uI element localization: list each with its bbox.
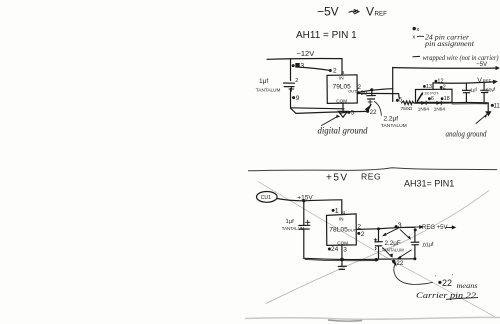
- svg-text:1N94: 1N94: [418, 106, 430, 111]
- svg-text:': ': [452, 275, 453, 281]
- svg-text:1N94: 1N94: [434, 106, 446, 111]
- svg-text:TANTALUM: TANTALUM: [256, 88, 281, 93]
- svg-text:22: 22: [442, 278, 452, 288]
- svg-text:2: 2: [333, 68, 337, 75]
- svg-text:x: x: [413, 35, 416, 41]
- svg-text:78L05: 78L05: [329, 227, 348, 234]
- svg-text:+15V: +15V: [297, 195, 313, 202]
- svg-text:TANTALUM: TANTALUM: [282, 226, 305, 231]
- svg-text:': ': [435, 276, 436, 282]
- svg-text:2: 2: [295, 78, 298, 84]
- svg-text:TANTALUM: TANTALUM: [382, 248, 404, 254]
- svg-text:x: x: [417, 27, 420, 33]
- svg-text:OUT: OUT: [348, 89, 357, 94]
- svg-text:1μf: 1μf: [259, 78, 268, 85]
- svg-text:6: 6: [431, 96, 434, 102]
- svg-text:−5V: −5V: [476, 61, 488, 68]
- svg-text:digital ground: digital ground: [318, 127, 368, 137]
- svg-text:5: 5: [351, 110, 355, 117]
- svg-text:2: 2: [357, 224, 361, 231]
- svg-text:2.2μF: 2.2μF: [385, 240, 401, 247]
- svg-text:3: 3: [343, 246, 347, 253]
- svg-text:−5V: −5V: [317, 5, 339, 19]
- svg-text:2.2μf: 2.2μf: [384, 115, 399, 122]
- svg-text:2: 2: [443, 84, 446, 90]
- svg-text:−12V: −12V: [297, 49, 315, 58]
- svg-text:3: 3: [300, 63, 304, 70]
- svg-text:OUT: OUT: [348, 228, 357, 233]
- svg-text:REG +5V: REG +5V: [422, 225, 448, 231]
- svg-text:20: 20: [361, 91, 368, 97]
- svg-text:1: 1: [335, 208, 339, 215]
- svg-text:11: 11: [494, 104, 500, 110]
- svg-text:V: V: [477, 78, 482, 85]
- svg-text:CU1: CU1: [261, 195, 271, 201]
- svg-text:IN: IN: [339, 216, 344, 221]
- svg-text:12: 12: [437, 79, 443, 85]
- svg-text:AH11 = PIN 1: AH11 = PIN 1: [296, 30, 357, 41]
- svg-text:22: 22: [370, 110, 377, 116]
- svg-text:.1μf: .1μf: [468, 87, 478, 94]
- svg-text:9: 9: [296, 95, 300, 102]
- svg-text:1K POT: 1K POT: [424, 90, 439, 95]
- svg-text:analog ground: analog ground: [446, 130, 488, 139]
- svg-text:means: means: [457, 282, 478, 290]
- svg-text:2: 2: [361, 231, 365, 238]
- svg-text:V: V: [366, 5, 374, 19]
- svg-text:REF: REF: [375, 10, 388, 17]
- svg-text:+5V: +5V: [326, 172, 349, 183]
- svg-text:13: 13: [426, 84, 432, 90]
- svg-text:1μf: 1μf: [286, 219, 295, 225]
- svg-text:24: 24: [331, 246, 339, 253]
- svg-text:REG: REG: [361, 171, 381, 181]
- svg-text:TANTALUM: TANTALUM: [381, 123, 407, 129]
- svg-text:u: u: [343, 210, 346, 216]
- svg-text:AH31= PIN1: AH31= PIN1: [404, 179, 454, 189]
- svg-text:22: 22: [396, 260, 404, 267]
- svg-text:COM: COM: [336, 99, 347, 104]
- svg-text:COM: COM: [337, 241, 348, 246]
- svg-text:pin assignment: pin assignment: [424, 40, 475, 48]
- svg-text:750Ω: 750Ω: [401, 106, 413, 112]
- svg-text:3: 3: [398, 223, 402, 230]
- svg-text:18: 18: [444, 96, 450, 102]
- svg-text:IN: IN: [339, 75, 344, 80]
- svg-text:REF: REF: [483, 79, 492, 84]
- svg-text:wrapped wire (not in carrier): wrapped wire (not in carrier): [423, 54, 500, 62]
